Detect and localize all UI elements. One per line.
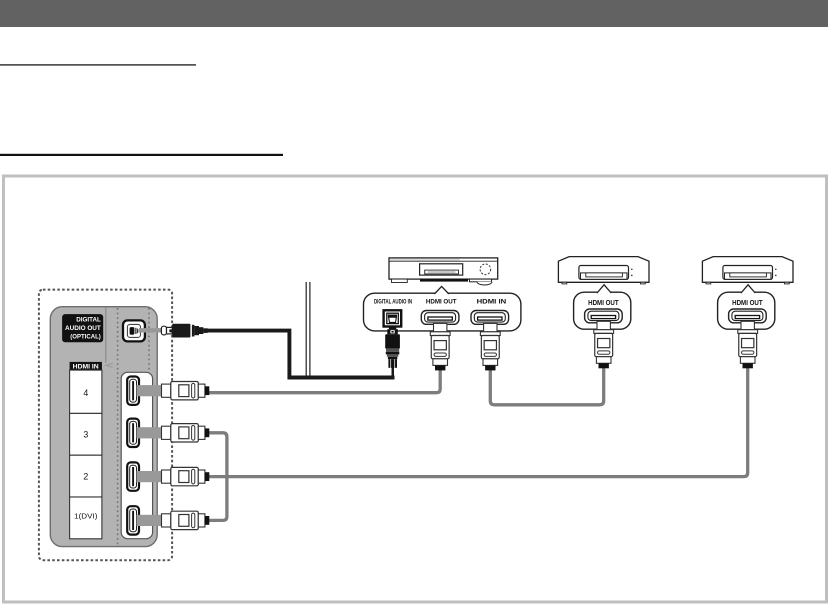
device1 callout panel	[364, 286, 521, 331]
device1 HDMI OUT slot	[421, 311, 459, 325]
panel divider line	[105, 307, 107, 362]
TV optical plug and stub	[139, 324, 208, 338]
cable device3 HDMI OUT to TV HDMI2	[209, 367, 748, 477]
panel fold mark	[106, 363, 113, 367]
top header bar	[0, 0, 828, 27]
svg-text:4: 4	[83, 388, 88, 398]
optical cable riser into plug	[392, 367, 395, 377]
HDMI plug into device1 HDMI IN	[480, 323, 500, 370]
double vertical line	[306, 282, 307, 376]
panel dotted seam line A	[117, 308, 119, 546]
svg-text:2: 2	[83, 471, 88, 481]
TV HDMI port 2	[127, 462, 139, 490]
svg-text:HDMI IN: HDMI IN	[73, 364, 99, 370]
svg-text:AUDIO OUT: AUDIO OUT	[65, 325, 101, 332]
optical plug into DIGITAL AUDIO IN	[385, 326, 400, 367]
cable bracket HDMI3 to HDMI1(DVI)	[209, 433, 227, 521]
HDMI plug into device3 HDMI OUT	[738, 321, 758, 368]
device1 DVD recorder body	[389, 258, 498, 285]
device2 DVD player with HDMI OUT callout	[558, 257, 649, 330]
label DIGITAL AUDIO OUT (OPTICAL)	[62, 314, 103, 342]
TV side-panel dashed outline box	[39, 290, 172, 561]
HDMI connector strip	[121, 372, 152, 538]
TV gray jack panel	[50, 307, 157, 547]
svg-text:HDMI IN: HDMI IN	[477, 299, 507, 306]
device3 DVD player with HDMI OUT callout	[702, 257, 793, 330]
TV HDMI port 1(DVI)	[127, 506, 139, 534]
HDMI plug into device2 HDMI OUT	[594, 321, 614, 368]
device1 HDMI IN slot	[471, 311, 509, 325]
figure outer border box	[4, 176, 827, 602]
TV HDMI port 3	[127, 419, 139, 447]
panel dotted seam line B	[148, 308, 150, 372]
svg-text:DIGITAL: DIGITAL	[76, 317, 101, 324]
svg-text:DIGITAL AUDIO IN: DIGITAL AUDIO IN	[374, 299, 412, 305]
TV HDMI plug 3	[137, 424, 210, 442]
TV optical port	[123, 320, 145, 341]
HDMI plug into device1 HDMI OUT	[430, 323, 450, 370]
TV HDMI plug 1(DVI)	[137, 511, 210, 529]
svg-text:1(DVI): 1(DVI)	[74, 512, 98, 521]
HDMI IN header box	[70, 362, 102, 370]
svg-text:(OPTICAL): (OPTICAL)	[70, 334, 101, 341]
TV HDMI port 4	[127, 377, 139, 405]
svg-text:HDMI OUT: HDMI OUT	[426, 299, 458, 306]
HDMI IN label boxes 4 3 2 1(DVI)	[70, 370, 102, 539]
svg-text:3: 3	[83, 430, 88, 440]
cable device1 HDMI IN to device2 HDMI OUT	[490, 367, 603, 405]
heading underline 1	[0, 64, 196, 65]
TV HDMI plug 4	[137, 382, 210, 400]
optical cable TV to DIGITAL AUDIO IN	[207, 331, 395, 378]
device1 DIGITAL AUDIO IN optical port	[384, 310, 402, 326]
heading underline 2	[0, 154, 283, 156]
TV HDMI plug 2	[137, 467, 210, 485]
cable TV HDMI4 to device1 HDMI OUT	[209, 370, 440, 393]
